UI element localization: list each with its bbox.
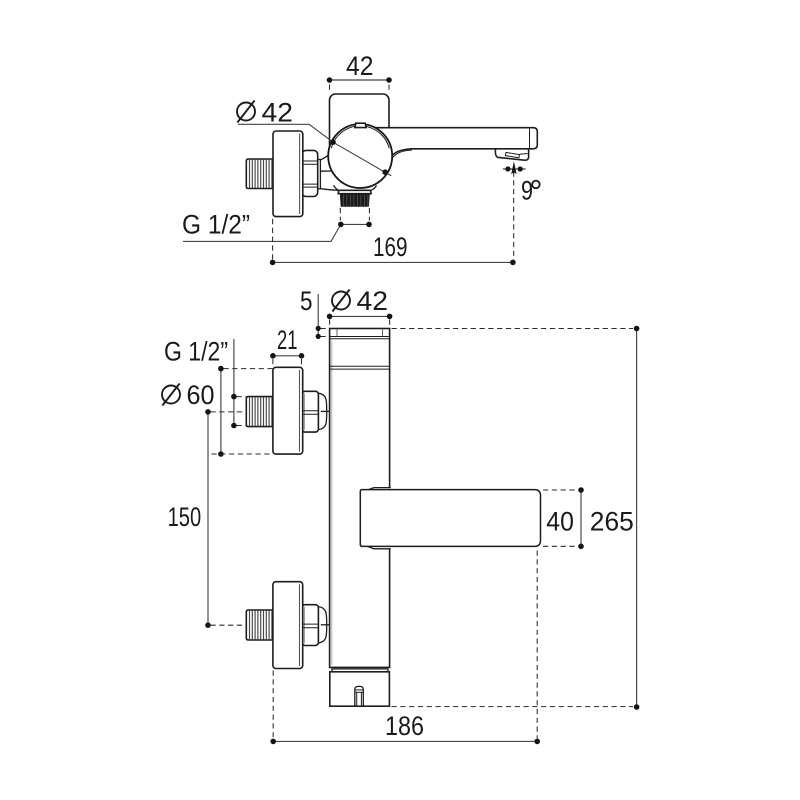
- svg-text:9: 9: [521, 176, 533, 206]
- svg-text:21: 21: [277, 325, 298, 355]
- svg-text:G 1/2”: G 1/2”: [164, 337, 228, 367]
- svg-text:5: 5: [300, 286, 313, 316]
- svg-text:169: 169: [373, 232, 408, 262]
- svg-text:265: 265: [590, 507, 634, 537]
- svg-text:40: 40: [546, 507, 574, 537]
- svg-text:G 1/2”: G 1/2”: [182, 210, 250, 240]
- svg-text:150: 150: [168, 502, 202, 532]
- svg-text:186: 186: [385, 711, 424, 741]
- svg-text:42: 42: [262, 98, 294, 128]
- svg-text:42: 42: [357, 286, 389, 316]
- svg-text:60: 60: [187, 380, 215, 410]
- svg-text:42: 42: [346, 51, 374, 81]
